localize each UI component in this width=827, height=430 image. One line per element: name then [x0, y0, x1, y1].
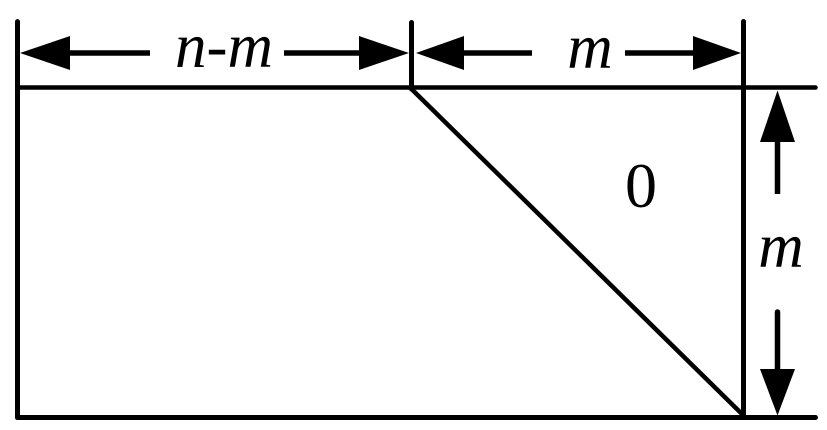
svg-text:n-m: n-m	[175, 11, 273, 81]
wire: middle tick extension line	[409, 23, 414, 90]
wire: top horizontal line	[18, 85, 816, 90]
arrow n-m right head	[359, 36, 409, 70]
wire: diagonal line	[412, 89, 745, 416]
arrow m-top right shaft	[625, 50, 695, 56]
arrow m-right upper shaft	[775, 138, 781, 194]
arrow m-right up head	[760, 91, 795, 143]
arrow m-right down head	[760, 369, 795, 416]
wire: bottom horizontal line	[18, 415, 816, 420]
svg-text:0: 0	[625, 150, 657, 221]
svg-text:m: m	[758, 211, 804, 281]
wire: left vertical extension line	[15, 22, 20, 418]
arrow n-m left shaft	[68, 50, 150, 56]
arrow m-top right head	[693, 36, 741, 70]
arrow m-right lower shaft	[775, 312, 781, 371]
arrow m-top left head	[416, 36, 464, 70]
arrow m-top left shaft	[462, 50, 532, 56]
svg-text:m: m	[567, 12, 613, 82]
arrow n-m left head	[20, 36, 70, 70]
wire: right vertical line of rectangle	[741, 22, 746, 416]
arrow n-m right shaft	[284, 50, 361, 56]
